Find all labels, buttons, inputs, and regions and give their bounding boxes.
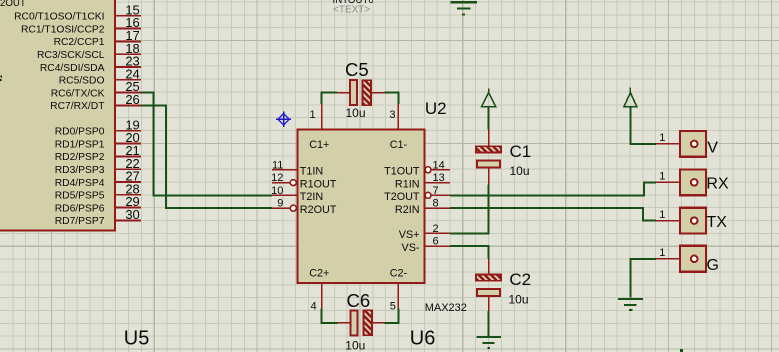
svg-text:RC4/SDI/SDA: RC4/SDI/SDA	[40, 63, 105, 74]
U5 pin 27 (RD4/PSP4)	[55, 169, 141, 189]
svg-text:11: 11	[272, 159, 283, 171]
U5 pin 24 (RC5/SDO)	[59, 66, 141, 86]
wire power to C1	[488, 107, 490, 130]
svg-text:9: 9	[277, 198, 283, 210]
svg-text:C5: C5	[345, 59, 369, 80]
svg-text:2OUT: 2OUT	[0, 0, 26, 9]
U2 pin 13 R1IN	[395, 172, 450, 190]
U5 pin 19 (RD0/PSP0)	[55, 117, 141, 137]
svg-text:10u: 10u	[510, 164, 530, 178]
svg-text:RD0/PSP0: RD0/PSP0	[55, 127, 105, 138]
U5 pin 29 (RD6/PSP6)	[55, 194, 141, 214]
svg-text:5: 5	[390, 301, 396, 313]
U5 pin 21 (RD2/PSP2)	[55, 143, 141, 163]
capacitor C2	[476, 259, 531, 311]
wire G connector to ground	[630, 259, 656, 298]
wire RC7/RX/DT to R2OUT	[141, 105, 272, 208]
wire C1 to VS+	[450, 184, 489, 233]
svg-text:10u: 10u	[345, 339, 365, 352]
svg-text:1: 1	[659, 132, 665, 144]
IC U2 MAX232 body	[298, 130, 425, 284]
svg-text:RC0/T1OSO/T1CKI: RC0/T1OSO/T1CKI	[14, 12, 104, 23]
U5 pin 22 (RD3/PSP3)	[55, 156, 141, 176]
capacitor C1	[476, 130, 531, 185]
svg-text:C2-: C2-	[390, 267, 408, 279]
U2 pin 5 C2-	[390, 267, 408, 312]
svg-text:C1: C1	[510, 142, 532, 161]
svg-text:MAX232: MAX232	[425, 302, 467, 314]
svg-text:RD5/PSP5: RD5/PSP5	[55, 191, 105, 202]
connector V (pin 1)	[656, 131, 718, 157]
svg-text:C1-: C1-	[390, 139, 408, 151]
U5 cut-off label fragment	[0, 76, 2, 81]
svg-text:RC6/TX/CK: RC6/TX/CK	[51, 88, 105, 99]
part reference U5	[124, 327, 150, 349]
wire C6 to U2 pin5	[385, 309, 399, 323]
svg-text:RC1/T1OSI/CCP2: RC1/T1OSI/CCP2	[21, 24, 105, 35]
svg-text:1: 1	[659, 171, 665, 183]
svg-text:T2OUT: T2OUT	[384, 191, 420, 203]
svg-text:U5: U5	[124, 327, 150, 349]
svg-text:RD6/PSP6: RD6/PSP6	[55, 203, 105, 214]
svg-text:VS+: VS+	[399, 229, 420, 241]
svg-text:RC7/RX/DT: RC7/RX/DT	[50, 101, 105, 112]
wire VS- to C2	[450, 246, 489, 259]
svg-text:T1IN: T1IN	[300, 166, 323, 178]
wire U2 pin1 to C5	[322, 93, 338, 104]
svg-text:RC3/SCK/SCL: RC3/SCK/SCL	[37, 50, 105, 61]
svg-text:8: 8	[433, 198, 439, 210]
svg-text:3: 3	[389, 109, 395, 121]
wire RC6/TX/CK to T2IN	[141, 93, 272, 196]
wire U2 pin4 to C6	[322, 309, 338, 323]
ground symbol below C2	[476, 337, 501, 348]
wire power to V connector	[630, 107, 656, 144]
U2 pin 1 C1+	[309, 104, 329, 151]
svg-text:VS-: VS-	[402, 242, 420, 254]
part reference U6	[410, 328, 436, 350]
U2 pin 11 T1IN	[272, 159, 323, 177]
U5 pin 16 (RC1/T1OSI/CCP2)	[21, 15, 141, 35]
svg-text:R2OUT: R2OUT	[300, 204, 337, 216]
U5 pin 18 (RC3/SCK/SCL)	[37, 41, 141, 61]
U2 pin 8 R2IN	[395, 198, 450, 216]
U5 pin 17 (RC2/CCP1)	[54, 28, 142, 48]
svg-text:RD3/PSP3: RD3/PSP3	[55, 165, 105, 176]
wire stub bottom right	[680, 349, 683, 352]
U2 pin 4 C2+	[309, 267, 329, 312]
svg-text:1: 1	[659, 209, 665, 221]
U5 pin 28 (RD5/PSP5)	[55, 181, 141, 201]
ground symbol below G	[618, 299, 643, 310]
svg-text:G: G	[707, 257, 719, 274]
U2 pin 9 R2OUT (bubble)	[272, 198, 337, 216]
microcontroller U5 body	[0, 0, 116, 231]
svg-text:RX: RX	[706, 175, 729, 192]
U2 pin 6 VS-	[402, 236, 451, 254]
svg-text:T2IN: T2IN	[300, 191, 323, 203]
svg-text:C1+: C1+	[309, 139, 329, 151]
svg-text:1: 1	[309, 109, 315, 121]
svg-text:RD2/PSP2: RD2/PSP2	[55, 152, 105, 163]
ground symbol top centre	[450, 2, 477, 14]
origin marker (blue)	[276, 112, 291, 127]
U5 pin 20 (RD1/PSP1)	[55, 130, 141, 150]
svg-text:C2: C2	[509, 270, 531, 289]
svg-text:26: 26	[125, 92, 139, 107]
U5 pin 23 (RC4/SDI/SDA)	[40, 54, 141, 74]
wire C2 to ground	[488, 311, 490, 336]
svg-text:<TEXT>: <TEXT>	[333, 4, 370, 15]
U5 pin 25 (RC6/TX/CK)	[51, 79, 141, 99]
U2 pin 12 R1OUT (bubble)	[271, 172, 337, 190]
placeholder text <TEXT>	[333, 4, 370, 15]
U2 pin 2 VS+	[399, 223, 450, 241]
connector G (pin 1)	[656, 246, 719, 274]
svg-text:R1OUT: R1OUT	[300, 178, 337, 190]
svg-text:C2+: C2+	[309, 267, 329, 279]
capacitor C6	[337, 290, 384, 352]
svg-text:30: 30	[125, 207, 139, 222]
connector TX (pin 1)	[656, 208, 727, 234]
U5 pin 26 (RC7/RX/DT)	[50, 92, 141, 112]
connector RX (pin 1)	[656, 170, 729, 196]
capacitor C5	[337, 59, 384, 120]
svg-text:12: 12	[271, 172, 283, 184]
U2 pin 14 T1OUT (bubble)	[384, 159, 450, 177]
U5 cut-off pin label 2OUT	[0, 0, 26, 9]
cut-off part label (black)	[333, 0, 375, 6]
svg-text:6: 6	[433, 236, 439, 248]
svg-text:R1IN: R1IN	[395, 178, 420, 190]
wire T2OUT to RX connector	[450, 182, 656, 195]
svg-text:V: V	[707, 140, 718, 157]
svg-text:C6: C6	[347, 290, 371, 311]
U5 pin 30 (RD7/PSP7)	[55, 207, 141, 227]
svg-text:10u: 10u	[509, 293, 529, 307]
power symbol above V connector	[624, 88, 637, 107]
svg-text:2: 2	[433, 223, 439, 235]
svg-text:13: 13	[433, 172, 445, 184]
part reference U2	[425, 99, 447, 118]
svg-text:RD1/PSP1: RD1/PSP1	[55, 139, 105, 150]
svg-text:RD4/PSP4: RD4/PSP4	[55, 178, 105, 189]
svg-text:T1OUT: T1OUT	[384, 166, 420, 178]
U2 pin 10 T2IN	[271, 185, 323, 203]
svg-text:R2IN: R2IN	[395, 204, 420, 216]
svg-text:10: 10	[271, 185, 283, 197]
svg-text:14: 14	[433, 159, 445, 171]
wire R2IN to TX connector	[450, 208, 656, 220]
U2 pin 7 T2OUT (bubble)	[384, 185, 450, 203]
svg-text:4: 4	[310, 301, 316, 313]
part value MAX232	[425, 302, 467, 314]
svg-text:U2: U2	[425, 99, 447, 118]
svg-text:RC5/SDO: RC5/SDO	[59, 76, 105, 87]
svg-text:TX: TX	[707, 214, 728, 231]
wire C5 to U2 pin3	[384, 93, 398, 104]
svg-text:U6: U6	[410, 328, 436, 350]
svg-text:10u: 10u	[346, 106, 366, 120]
power symbol above C1	[482, 88, 496, 107]
U5 pin 15 (RC0/T1OSO/T1CKI)	[14, 2, 141, 22]
svg-text:RC2/CCP1: RC2/CCP1	[54, 37, 105, 48]
svg-text:1: 1	[659, 247, 665, 259]
U2 pin 3 C1-	[389, 104, 407, 151]
svg-text:7: 7	[433, 185, 439, 197]
svg-text:RD7/PSP7: RD7/PSP7	[55, 216, 105, 227]
